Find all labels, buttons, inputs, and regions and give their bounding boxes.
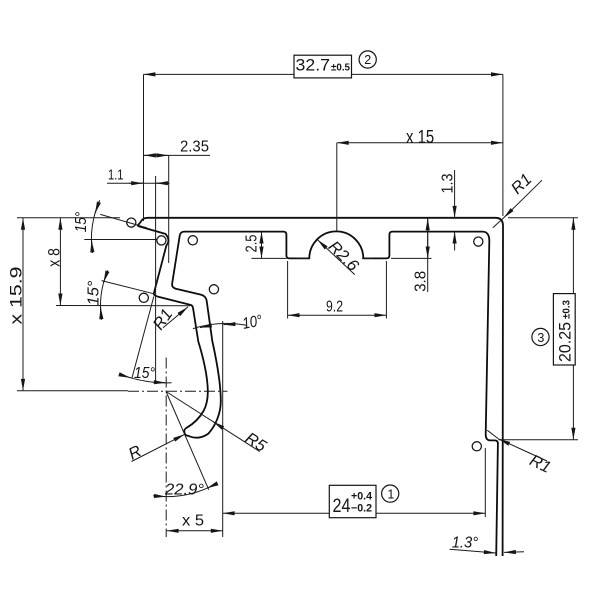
dimension 20.25 : line <box>572 218 574 440</box>
leader R inner radius <box>132 434 185 461</box>
svg-text:15°: 15° <box>73 211 90 232</box>
svg-text:1: 1 <box>387 487 394 501</box>
dimension x15.9 : line <box>22 218 24 391</box>
measuring point circle at barb <box>157 236 166 245</box>
dimension 9.2 : line <box>288 314 387 316</box>
angle 15deg upper : arc <box>91 200 99 253</box>
svg-text:3.8: 3.8 <box>413 271 430 292</box>
extension line for 24 right <box>484 448 486 517</box>
leader R1 bottom slot corner <box>487 430 498 439</box>
dimension 3.8 : line <box>427 218 429 292</box>
angle 15deg lower : arc <box>124 376 172 383</box>
dimension 20.25 : extension bottom <box>499 439 579 441</box>
angle 10deg arrows <box>200 326 208 328</box>
angle 15deg lower : extension of lip edge <box>132 297 154 379</box>
dimension 32.7±0.5 : line <box>144 73 503 75</box>
svg-text:x 15: x 15 <box>406 127 434 147</box>
angle 22.9deg arrows <box>153 495 166 498</box>
extension line right of 2.35 (barb outer) <box>168 155 170 263</box>
angle 15deg middle : extension of kick face <box>102 281 155 294</box>
dimension x8 : line <box>59 218 61 306</box>
extension line floor right <box>391 257 432 259</box>
dimension 24 : line <box>223 512 486 514</box>
balloon 1 <box>382 485 399 502</box>
measuring point circle near top-right inner corner <box>474 237 483 246</box>
arch base centreline left <box>297 257 311 259</box>
angle 15deg upper : extension of lip underside <box>100 214 147 227</box>
framed dimension 24 +0.4/-0.2 <box>329 485 376 517</box>
arch base centreline right <box>362 257 376 259</box>
dimension 1.1 : line <box>107 182 169 184</box>
svg-text:15°: 15° <box>134 365 156 382</box>
horizontal reference through barb <box>84 239 156 241</box>
framed dimension 32.7±0.5 <box>294 55 352 78</box>
leader R1 top right corner <box>504 180 542 218</box>
angle 1.3deg leader left <box>450 549 496 553</box>
extension line for x15 to arch apex <box>336 143 338 231</box>
extension lines 9.2 <box>287 261 289 319</box>
dimension 20.25 : extension top <box>508 217 578 219</box>
angle 15deg middle arrows <box>104 271 108 283</box>
extension line x8 bottom to kick vertex <box>56 305 190 307</box>
svg-text:±0.3: ±0.3 <box>561 300 573 319</box>
svg-text:22.9°: 22.9° <box>164 482 205 499</box>
svg-text:24: 24 <box>333 495 351 517</box>
leader R2.6 <box>318 240 355 275</box>
angle 22.9deg : arc <box>153 484 215 496</box>
leader R5 from centre <box>167 392 260 452</box>
measuring point circle near middle lip <box>139 293 148 302</box>
extension line at middle lip tip <box>155 176 157 384</box>
extension line floor left <box>252 257 287 259</box>
svg-text:3: 3 <box>537 331 544 345</box>
extension line x5/24/10deg at hook tangent <box>222 321 224 537</box>
dimension 1.3 top bar thickness <box>454 170 456 218</box>
vertical centreline through hook centre <box>165 358 167 538</box>
svg-text:1.3: 1.3 <box>439 174 456 194</box>
svg-text:x 5: x 5 <box>182 513 204 530</box>
shared top extension line <box>17 217 120 219</box>
measuring point circle at inner corner <box>188 236 197 245</box>
svg-text:2.5: 2.5 <box>244 235 261 253</box>
svg-text:±0.5: ±0.5 <box>331 61 350 73</box>
svg-text:32.7: 32.7 <box>296 57 331 75</box>
svg-text:+0.4: +0.4 <box>351 491 373 503</box>
angle 15deg upper arrows <box>95 201 99 214</box>
leader R1 at kick vertex <box>163 307 188 328</box>
svg-text:1.1: 1.1 <box>108 168 124 184</box>
dimension 2.35 : line <box>144 154 211 156</box>
measuring point circle near slot bottom <box>472 442 481 451</box>
extension line right of 32.7 <box>502 74 504 216</box>
angle 15deg middle : arc <box>100 270 107 320</box>
svg-text:15°: 15° <box>86 280 103 306</box>
balloon 2 <box>359 51 376 68</box>
dimension x5 : line <box>167 530 223 532</box>
svg-text:x 15.9: x 15.9 <box>8 267 26 325</box>
horizontal centreline through hook centre <box>128 390 228 392</box>
svg-text:1.3°: 1.3° <box>452 535 479 552</box>
svg-text:20.25: 20.25 <box>557 322 575 362</box>
dimension 2.5 : line <box>261 232 263 259</box>
svg-text:9.2: 9.2 <box>326 298 343 315</box>
angle 10deg : arc <box>193 323 247 328</box>
svg-text:2.35: 2.35 <box>180 138 209 155</box>
angle 22.9deg : ray from centre <box>166 392 209 490</box>
framed dimension 20.25±0.3 rotated <box>553 294 575 365</box>
balloon 3 <box>532 328 549 345</box>
svg-text:2: 2 <box>364 53 371 67</box>
svg-text:−0.2: −0.2 <box>351 502 372 514</box>
svg-text:x 8: x 8 <box>46 248 64 267</box>
angle 1.3deg leader right <box>504 551 524 554</box>
measuring point circle near hook wall <box>209 285 218 294</box>
dimension x15 : line <box>337 142 503 144</box>
centrelines <box>128 258 376 537</box>
profile outline of extrusion cross-section <box>138 218 503 556</box>
thin dimension / extension line work <box>17 74 578 553</box>
extension line left of 32.7 <box>143 74 145 221</box>
angle 15deg lower arrows <box>124 376 130 378</box>
measuring point circle on top lip line <box>127 218 136 227</box>
bottom extension line for x15.9 <box>17 390 128 392</box>
